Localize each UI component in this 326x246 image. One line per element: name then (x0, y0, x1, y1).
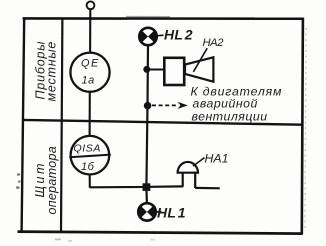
node junction bell branch (143, 183, 151, 191)
column divider line (61, 18, 62, 231)
wire terminal to QE (89, 9, 91, 53)
svg-text:вентиляции: вентиляции (192, 109, 268, 123)
device QE 1a (70, 53, 109, 92)
svg-text:оператора: оператора (45, 146, 59, 215)
outer border top (23, 17, 304, 20)
svg-text:HL2: HL2 (164, 27, 193, 43)
device QISA 1b (71, 136, 110, 175)
dashed branch line (152, 104, 178, 106)
HA2 leader slash (193, 48, 207, 72)
outer border right (302, 18, 303, 235)
HL1 label tick (156, 211, 162, 213)
row label Pribory mestnye (34, 41, 59, 102)
junction arrow branch (144, 102, 152, 110)
junction horn branch (143, 66, 150, 73)
main vertical wire (146, 45, 148, 203)
horn HA2 cone (185, 57, 213, 81)
HL2 label tick (157, 34, 164, 37)
horn HA2 box (164, 58, 184, 85)
svg-text:QE: QE (81, 58, 100, 70)
svg-text:местные: местные (45, 41, 59, 102)
wire QE to QISA (89, 92, 91, 136)
wire QISA to main node (90, 186, 147, 188)
terminal circle top (87, 1, 95, 9)
wire node to bell left leg (150, 185, 183, 188)
svg-text:HA1: HA1 (205, 152, 229, 166)
row label Shchit operatora (33, 146, 59, 215)
lamp HL1 (138, 203, 156, 220)
svg-text:1а: 1а (82, 75, 95, 87)
svg-text:HL1: HL1 (157, 205, 186, 221)
svg-text:1б: 1б (81, 161, 95, 173)
wire bell right leg out (195, 187, 220, 190)
arrow head (178, 102, 188, 109)
outer border left (22, 17, 25, 231)
wire QISA down (89, 174, 91, 187)
svg-text:QISA: QISA (74, 143, 102, 155)
row divider line (23, 120, 302, 125)
QISA divider chord (69, 155, 111, 158)
bell HA1 (178, 162, 198, 188)
wire to horn (147, 68, 164, 70)
lamp HL2 (139, 28, 157, 45)
HA1 leader slash (193, 158, 205, 167)
svg-text:HA2: HA2 (203, 37, 225, 49)
outer border bottom (18, 232, 303, 234)
